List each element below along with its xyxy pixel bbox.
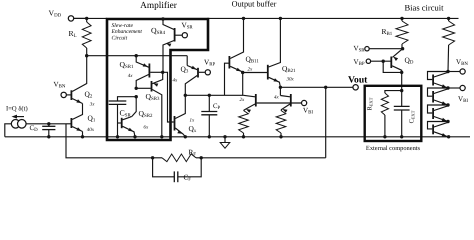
capacitor CSR <box>109 100 127 102</box>
wire ext top to REXT <box>385 91 402 93</box>
external components box <box>365 86 422 141</box>
node bias n4 <box>446 120 449 123</box>
node QB11 collector rail <box>242 17 245 20</box>
node RB1 bottom <box>401 47 404 50</box>
node feedback tap <box>324 86 327 89</box>
wire VDD to rail <box>74 17 87 19</box>
node RL bottom <box>85 54 88 57</box>
node Q3 Qx collector junction <box>184 94 187 97</box>
node REXT ground <box>383 135 386 138</box>
svg-text:3x: 3x <box>90 102 96 108</box>
transistor QB11 <box>228 56 230 69</box>
terminal VRP <box>205 70 210 75</box>
svg-text:Output buffer: Output buffer <box>232 0 277 9</box>
wire QB11 emitter to QB21 base <box>243 72 267 74</box>
node bias chain ground <box>447 135 450 138</box>
wire source to Q1 base <box>26 123 66 125</box>
wire RL to Q2 collector <box>72 56 87 92</box>
capacitor CP <box>208 95 210 111</box>
wire VSR to RB1 bottom <box>369 48 402 50</box>
svg-text:40x: 40x <box>87 127 95 133</box>
wire VBP to QD base <box>371 60 391 62</box>
wire QD diode loop <box>383 61 402 72</box>
svg-text:30x: 30x <box>287 77 295 83</box>
node CP bottom <box>208 135 211 138</box>
resistor RF <box>153 157 162 159</box>
transistor QSR2 <box>123 117 132 120</box>
node VBN tap <box>446 70 449 73</box>
wire RL bottom to Q3 emitter <box>87 55 188 57</box>
svg-text:4x: 4x <box>274 95 280 101</box>
transistor bias T3 <box>428 105 449 113</box>
node RF right <box>200 156 203 159</box>
node RB1 rail <box>400 17 403 20</box>
wire feedback riser <box>325 87 327 158</box>
wire CSR node to QSR2 collector <box>132 97 136 117</box>
svg-text:External components: External components <box>366 145 421 152</box>
node CP tap <box>208 94 211 97</box>
svg-text:I=Q δ(t): I=Q δ(t) <box>6 106 28 113</box>
capacitor CF loop <box>153 158 175 177</box>
node CSR bottom <box>116 135 119 138</box>
node QSR4 rail <box>161 17 164 20</box>
resistor RB1 <box>401 18 403 21</box>
svg-text:2x: 2x <box>240 97 246 103</box>
node RB2 rail <box>447 17 450 20</box>
wire Q1 base <box>66 123 71 125</box>
node QD base <box>382 60 385 63</box>
transistor QB12 2x <box>243 95 255 97</box>
svg-text:Amplifier: Amplifier <box>140 1 178 11</box>
wire VBN right <box>448 71 460 73</box>
svg-text:1x: 1x <box>190 118 196 124</box>
amplifier box outline <box>107 19 208 140</box>
svg-text:6x: 6x <box>144 125 150 131</box>
terminal VBI right <box>460 85 465 90</box>
wire VBI bases <box>257 102 302 104</box>
wire amplifier output <box>185 94 243 96</box>
wire QSR1 base <box>150 71 163 73</box>
node QSR3 base junction <box>135 87 138 90</box>
transistor QSR3 <box>152 72 162 83</box>
transistor Qx <box>174 116 176 131</box>
arrow current direction <box>14 116 24 118</box>
svg-text:Circuit: Circuit <box>112 35 128 41</box>
terminal VBP <box>366 59 370 63</box>
wire bottom ground rail <box>5 136 470 138</box>
svg-text:Bias circuit: Bias circuit <box>405 3 445 13</box>
wire VBI right <box>448 87 460 89</box>
wire QSR2 base stub <box>118 122 122 124</box>
node QB12 resistor ground <box>242 135 245 138</box>
wire VBN to Q2 base <box>66 94 70 96</box>
wire Q2 emitter to Q1 collector <box>72 104 82 120</box>
node QSR2 emitter ground <box>133 135 136 138</box>
node RF left <box>151 156 154 159</box>
terminal VBN left <box>61 92 66 97</box>
node QSR1 emitter tap <box>135 54 138 57</box>
wire output to Vout <box>280 86 353 88</box>
wire Q1 emitter to ground <box>82 132 84 137</box>
resistor RB2 <box>448 18 450 21</box>
wire base node to Qx base <box>163 72 174 122</box>
svg-text:4x: 4x <box>128 73 134 79</box>
current source I <box>11 120 20 129</box>
wire Q3 emitter drop <box>186 56 188 66</box>
wire QSR4 base to VSR <box>175 34 182 36</box>
transistor Q2 <box>70 90 72 100</box>
wire QSR3 base <box>136 87 151 89</box>
node QD collector <box>400 71 403 74</box>
wire source left loop <box>5 124 12 137</box>
resistor RL <box>86 18 88 22</box>
node QB21 collector rail <box>279 17 282 20</box>
svg-text:Slew-rate: Slew-rate <box>112 23 134 29</box>
svg-text:Vout: Vout <box>348 75 368 86</box>
transistor bias T2 <box>428 88 449 96</box>
node ground tap <box>223 135 226 138</box>
node bias n2 <box>446 86 449 89</box>
node QSR1 base junction <box>161 71 164 74</box>
svg-text:4x: 4x <box>173 78 179 84</box>
resistor QB22 emitter <box>276 111 286 134</box>
node bias n3 <box>446 103 449 106</box>
node CD bottom <box>47 135 50 138</box>
ground <box>224 137 226 143</box>
node Qx emitter ground <box>184 135 187 138</box>
wire QD collector to ext box <box>401 72 403 90</box>
transistor QD <box>393 49 403 58</box>
node ext top junction <box>400 89 403 92</box>
node output <box>279 86 282 89</box>
svg-text:2x: 2x <box>248 67 254 73</box>
resistor REXT <box>381 93 388 115</box>
transistor QB21 <box>267 65 269 80</box>
terminal Vout <box>353 85 358 90</box>
wire top supply rail <box>74 17 107 19</box>
svg-text:CEXT: CEXT <box>409 110 416 123</box>
capacitor CEXT <box>401 91 403 107</box>
terminal VDD <box>68 16 73 21</box>
transistor QB22 4x <box>280 96 290 97</box>
transistor bias T1 <box>428 72 449 80</box>
terminal VSR right <box>365 47 369 51</box>
capacitor CD <box>48 124 50 127</box>
wire QB11 base riser <box>225 63 229 95</box>
node QB22 resistor ground <box>279 135 282 138</box>
wire RF to riser <box>201 157 326 159</box>
transistor QSR4 <box>163 19 174 30</box>
wire QB11 emitter down <box>242 73 244 96</box>
node CSR top junction <box>135 95 138 98</box>
terminal VSR top <box>182 33 187 38</box>
node QSR3 collector ground <box>160 135 163 138</box>
node CD top <box>47 122 50 125</box>
wire CSR top <box>118 97 137 101</box>
wire Q3 base to VRP <box>199 71 206 73</box>
transistor QSR1 <box>136 56 148 67</box>
terminal VBN right <box>460 69 465 74</box>
svg-text:REXT: REXT <box>367 97 374 110</box>
wire input node to feedback <box>66 124 153 158</box>
wire output down <box>279 87 281 95</box>
transistor Q1 <box>70 118 72 128</box>
resistor QB12 emitter <box>239 111 249 134</box>
terminal VBI mid <box>302 100 307 105</box>
node CEXT ground <box>400 135 403 138</box>
node Q1 emitter ground <box>81 135 84 138</box>
svg-text:Enhancement: Enhancement <box>111 29 143 35</box>
node QB11 emitter <box>241 71 244 74</box>
transistor Q3 <box>187 66 197 70</box>
transistor bias T4 <box>428 122 449 129</box>
node VDD rail junction <box>85 17 88 20</box>
